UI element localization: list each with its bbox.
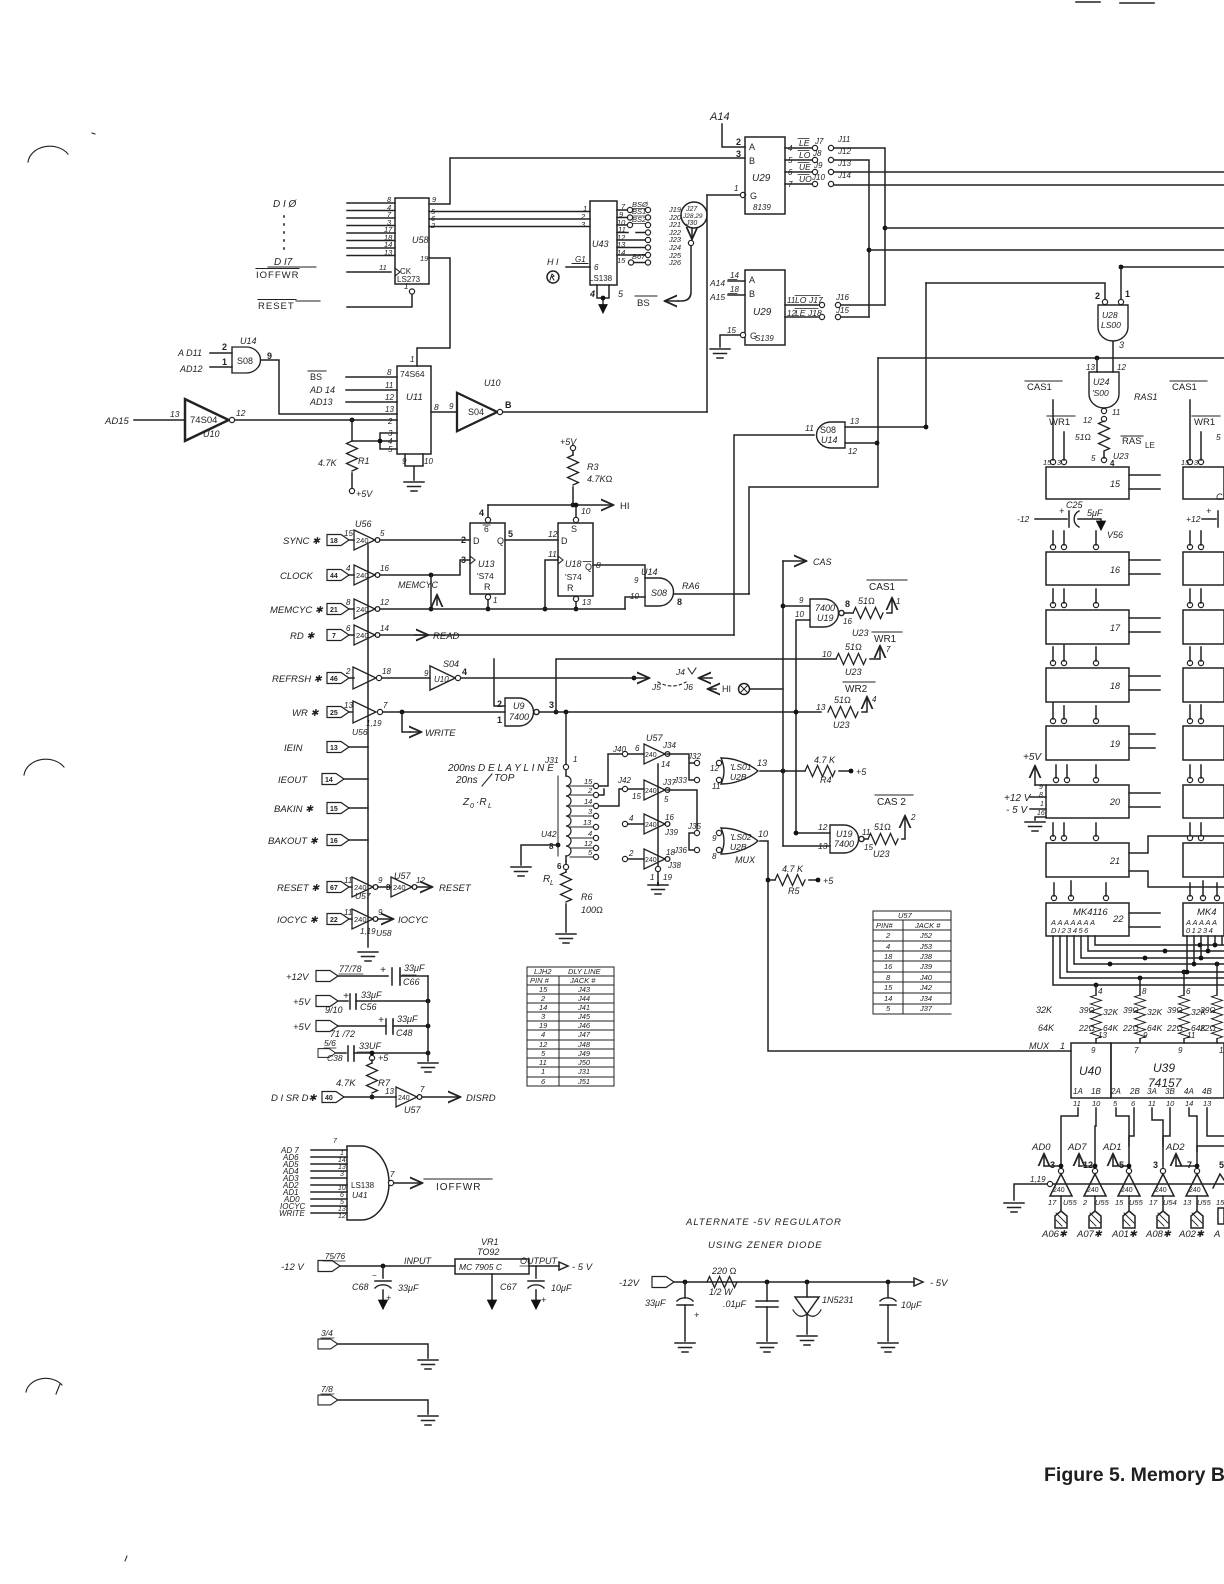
gate U24 LS00: [1096, 358, 1098, 372]
svg-text:1: 1: [573, 755, 577, 764]
svg-text:Figure 5. Memory Boa: Figure 5. Memory Boa: [1044, 1464, 1224, 1486]
svg-text:U10: U10: [484, 378, 501, 388]
power cap common ground: [427, 976, 429, 1061]
svg-text:1: 1: [493, 596, 497, 605]
svg-text:V56: V56: [1107, 530, 1123, 540]
svg-text:S08: S08: [237, 356, 253, 366]
svg-text:6: 6: [1131, 1099, 1136, 1108]
wire S08 pin13 stub: [845, 426, 926, 428]
svg-text:240: 240: [1087, 1187, 1099, 1194]
svg-text:13: 13: [385, 1087, 394, 1096]
svg-text:9: 9: [1091, 1046, 1096, 1055]
svg-text:9: 9: [1178, 1046, 1183, 1055]
svg-text:RD ✱: RD ✱: [290, 631, 315, 642]
wire U28 out to U24 in12: [1112, 342, 1114, 372]
svg-text:51Ω: 51Ω: [834, 695, 851, 705]
svg-text:1A: 1A: [1073, 1087, 1083, 1096]
output tag clipped: [1218, 1208, 1224, 1224]
svg-text:7: 7: [1187, 1160, 1192, 1170]
svg-text:46: 46: [330, 676, 338, 683]
svg-text:3: 3: [736, 149, 741, 159]
svg-text:U57: U57: [646, 733, 664, 743]
svg-text:33μF: 33μF: [645, 1298, 666, 1308]
svg-text:J16: J16: [835, 293, 849, 302]
buffer U10 74S04: [185, 399, 229, 441]
IC U11 74S64: [397, 366, 431, 454]
svg-text:PIN#: PIN#: [876, 921, 894, 930]
svg-text:−: −: [372, 1271, 377, 1280]
svg-text:13: 13: [385, 405, 394, 414]
zener diode 1N5231: [805, 1280, 810, 1285]
svg-text:+: +: [343, 991, 349, 1002]
svg-text:LE: LE: [799, 138, 810, 148]
svg-text:10: 10: [822, 649, 832, 659]
svg-text:4: 4: [462, 667, 467, 677]
CAS bus vertical: [782, 561, 784, 846]
wire y250 line to edge: [867, 248, 872, 253]
address buffer enable line: [1014, 1184, 1224, 1200]
svg-text:IEIN: IEIN: [284, 743, 303, 754]
wire trunk corner down x878: [749, 358, 878, 594]
svg-text:15: 15: [330, 806, 338, 813]
svg-text:J6: J6: [683, 682, 693, 692]
svg-text:9: 9: [432, 195, 437, 204]
svg-text:AD0: AD0: [1031, 1142, 1051, 1153]
svg-text:8: 8: [387, 368, 392, 377]
svg-text:S08: S08: [820, 425, 836, 435]
svg-text:14: 14: [884, 994, 892, 1003]
svg-text:- 5 V: - 5 V: [1006, 805, 1028, 816]
svg-text:R3: R3: [587, 462, 599, 472]
wire A14 into U29a pin A: [722, 124, 745, 147]
svg-text:J32: J32: [687, 752, 701, 761]
page margin hook middle-left: [24, 759, 64, 775]
svg-text:IOCYC ✱: IOCYC ✱: [277, 915, 319, 926]
memory block 15 col2: [1183, 467, 1224, 499]
svg-text:JACK #: JACK #: [569, 976, 596, 985]
svg-text:2: 2: [540, 994, 546, 1003]
svg-text:6: 6: [1186, 987, 1191, 996]
svg-text:RESET ✱: RESET ✱: [277, 883, 320, 894]
resistor R3 4.7K +5V to HI: [570, 445, 575, 450]
svg-text:100Ω: 100Ω: [581, 905, 603, 915]
svg-text:8: 8: [845, 599, 850, 609]
buffer U57 d: [622, 856, 627, 861]
capacitor 33uF zener: [683, 1280, 688, 1285]
svg-text:LO: LO: [795, 295, 807, 305]
decoder U29a LS139: [745, 137, 785, 214]
svg-text:2: 2: [1082, 1198, 1088, 1207]
svg-text:5: 5: [1216, 432, 1221, 442]
output tag AD1*: [1123, 1211, 1135, 1228]
svg-text:20: 20: [1109, 797, 1120, 807]
svg-text:C67: C67: [500, 1282, 518, 1292]
IC U43 LS138: [590, 201, 617, 285]
svg-text:J48: J48: [577, 1040, 591, 1049]
svg-text:RAS: RAS: [1122, 436, 1142, 447]
svg-text:J51: J51: [577, 1077, 590, 1086]
svg-text:1N5231: 1N5231: [822, 1295, 854, 1305]
svg-text:U58: U58: [376, 928, 392, 938]
svg-text:32K: 32K: [1147, 1007, 1162, 1017]
svg-text:15: 15: [884, 983, 893, 992]
svg-text:14: 14: [325, 777, 333, 784]
svg-text:J4: J4: [675, 667, 685, 677]
svg-text:+5: +5: [823, 876, 834, 886]
svg-text:J53: J53: [919, 942, 933, 951]
svg-text:+5: +5: [856, 767, 867, 777]
svg-text:7400: 7400: [834, 839, 854, 849]
svg-text:2: 2: [345, 667, 351, 676]
svg-text:74S64: 74S64: [400, 369, 425, 379]
svg-text:+12V: +12V: [286, 972, 310, 983]
svg-text:A14: A14: [709, 278, 725, 288]
svg-text:A01✱: A01✱: [1111, 1229, 1138, 1240]
wire J37 to J35 jacks: [667, 790, 697, 850]
DI bus ellipsis dots: [283, 216, 285, 249]
svg-text:U11: U11: [406, 392, 423, 403]
svg-text:INPUT: INPUT: [404, 1256, 433, 1266]
svg-text:16: 16: [1110, 565, 1120, 575]
svg-text:S: S: [571, 524, 577, 534]
svg-text:J39: J39: [919, 962, 933, 971]
svg-text:7: 7: [332, 633, 336, 640]
svg-text:5/6: 5/6: [324, 1038, 336, 1048]
address buffer T5: [1194, 1168, 1199, 1173]
svg-text:UO: UO: [799, 174, 812, 184]
resistor 51ohm CAS2 U23: [864, 838, 868, 840]
wire taps to U57 buffers: [599, 754, 622, 786]
svg-text:17: 17: [1110, 623, 1121, 633]
svg-text:1: 1: [734, 184, 738, 193]
svg-text:12: 12: [338, 1213, 346, 1220]
wire wr line to gate: [383, 711, 505, 713]
svg-text:5: 5: [1119, 1160, 1124, 1170]
svg-text:·R: ·R: [476, 797, 487, 808]
wire reset arrow: [417, 886, 431, 888]
svg-text:J35: J35: [687, 822, 701, 831]
svg-text:JACK #: JACK #: [914, 921, 941, 930]
delay line taps: [583, 777, 593, 857]
net labels LE LO UE UO: [799, 138, 812, 184]
svg-text:4: 4: [479, 508, 484, 518]
svg-text:14: 14: [380, 624, 389, 633]
svg-text:12: 12: [584, 839, 593, 848]
svg-text:+: +: [694, 1310, 699, 1320]
svg-text:J39: J39: [664, 828, 678, 837]
wire U18 CK from memcyc: [545, 560, 558, 609]
wire y283 line into U28: [926, 283, 1105, 300]
svg-text:0: 0: [470, 803, 474, 810]
svg-text:240: 240: [645, 857, 657, 864]
svg-text:U28: U28: [1102, 310, 1118, 320]
svg-text:A15: A15: [709, 292, 725, 302]
svg-text:U23: U23: [873, 849, 890, 859]
svg-text:13: 13: [1086, 363, 1095, 372]
address buffer T2: [1092, 1168, 1097, 1173]
svg-text:D: D: [473, 536, 480, 546]
svg-text:11: 11: [1073, 1099, 1081, 1108]
wire IOFFWR to U58 CK: [347, 271, 391, 273]
svg-text:R: R: [484, 582, 491, 592]
decoder U41 LS138 ioffwr: [279, 1146, 306, 1218]
svg-text:U57: U57: [355, 891, 371, 901]
svg-text:16: 16: [380, 564, 389, 573]
wire DI0-DI7 input lines to U58: [347, 203, 395, 256]
svg-text:D I7: D I7: [274, 257, 293, 268]
svg-text:6: 6: [346, 624, 351, 633]
svg-text:J33: J33: [673, 776, 687, 785]
svg-text:51Ω: 51Ω: [845, 642, 862, 652]
svg-text:J41: J41: [577, 1003, 590, 1012]
svg-text:C: C: [1216, 492, 1223, 502]
svg-text:R5: R5: [788, 886, 800, 896]
svg-text:3: 3: [340, 1171, 344, 1178]
svg-text:14: 14: [338, 1157, 346, 1164]
wire MUX out down to U40: [760, 841, 1071, 1051]
svg-text:1: 1: [340, 1150, 344, 1157]
svg-text:MK4: MK4: [1197, 907, 1217, 918]
svg-text:G1: G1: [575, 255, 586, 264]
wire U58 pin19 to U11 pin1: [417, 258, 450, 366]
svg-text:2: 2: [587, 786, 593, 795]
svg-text:U23: U23: [833, 720, 850, 730]
svg-text:240: 240: [1121, 1187, 1133, 1194]
wire S08 pin12 stub: [845, 442, 877, 444]
svg-text:17: 17: [1048, 1198, 1057, 1207]
svg-text:4.7KΩ: 4.7KΩ: [587, 474, 613, 484]
svg-text:4: 4: [1098, 987, 1103, 996]
svg-text:7400: 7400: [815, 603, 835, 613]
svg-text:BAKIN ✱: BAKIN ✱: [274, 804, 314, 815]
svg-text:5: 5: [1113, 1099, 1118, 1108]
svg-text:U42: U42: [541, 829, 557, 839]
svg-text:9: 9: [424, 669, 429, 678]
wire U29a G pin stub: [707, 194, 741, 196]
svg-text:2: 2: [628, 849, 634, 858]
svg-text:75/76: 75/76: [325, 1252, 346, 1261]
svg-text:11: 11: [1187, 1031, 1195, 1040]
capacitor 10uF zener: [886, 1280, 891, 1285]
wire write arrow branch: [402, 712, 410, 732]
svg-text:32K: 32K: [1103, 1007, 1118, 1017]
svg-text:'S74: 'S74: [565, 572, 582, 582]
wire sync to U13 D: [380, 539, 470, 541]
svg-text:11: 11: [379, 263, 387, 272]
memory block 19 col2: [1183, 726, 1224, 760]
svg-text:9: 9: [378, 908, 383, 917]
circled-R mark: [547, 271, 559, 283]
svg-text:7: 7: [886, 645, 891, 654]
svg-text:A: A: [749, 142, 755, 152]
svg-text:4: 4: [589, 289, 595, 299]
page margin hook top-left: [28, 146, 68, 162]
svg-text:15: 15: [1115, 1198, 1124, 1207]
svg-text:A: A: [749, 275, 755, 285]
svg-text:MEMCYC ✱: MEMCYC ✱: [270, 605, 324, 616]
svg-text:2: 2: [387, 417, 393, 426]
wire vertical net x707 (B select): [706, 195, 708, 412]
memory block 20 col2: [1183, 785, 1224, 818]
svg-text:+5V: +5V: [293, 997, 312, 1008]
svg-text:77/78: 77/78: [339, 964, 362, 974]
svg-text:J26: J26: [668, 258, 682, 267]
svg-text:8: 8: [346, 598, 351, 607]
svg-text:TOP: TOP: [494, 773, 515, 784]
svg-text:13: 13: [1098, 1031, 1107, 1040]
svg-text:A D11: A D11: [177, 348, 202, 358]
wire LE net to right via x885: [834, 148, 885, 305]
svg-text:+5V: +5V: [560, 437, 577, 447]
wire RA6 out to x749 vertical: [674, 593, 749, 596]
svg-text:U56: U56: [355, 519, 372, 529]
staircase junction dots: [1094, 983, 1099, 988]
svg-text:13: 13: [582, 598, 591, 607]
svg-text:16: 16: [665, 813, 674, 822]
svg-text:8: 8: [1039, 792, 1043, 799]
svg-text:39Ω: 39Ω: [1079, 1005, 1095, 1015]
svg-text:A06✱: A06✱: [1041, 1229, 1068, 1240]
svg-text:BAKOUT ✱: BAKOUT ✱: [268, 836, 319, 847]
svg-text:10: 10: [758, 829, 768, 839]
svg-text:11: 11: [712, 782, 720, 791]
node +5 pickup R7: [370, 1051, 375, 1056]
svg-text:U13: U13: [478, 559, 495, 569]
svg-text:LS138: LS138: [351, 1181, 375, 1190]
wire U28 pin1 from y267: [1120, 267, 1122, 300]
svg-text:4: 4: [872, 695, 877, 704]
svg-text:C25: C25: [1066, 500, 1084, 510]
buffer U56 rd: [354, 625, 380, 645]
svg-text:6: 6: [541, 1077, 546, 1086]
wire LO net to right via x869: [834, 160, 869, 317]
svg-text:USING ZENER DIODE: USING ZENER DIODE: [708, 1240, 823, 1251]
svg-text:8: 8: [1142, 987, 1147, 996]
svg-text:240: 240: [1189, 1187, 1201, 1194]
svg-text:13: 13: [583, 818, 592, 827]
svg-text:Q: Q: [497, 536, 504, 546]
svg-text:1: 1: [896, 597, 900, 606]
svg-text:RESET: RESET: [258, 301, 295, 312]
buffer U56 clock: [354, 565, 380, 585]
svg-text:RA6: RA6: [682, 581, 700, 591]
svg-text:MC 7905 C: MC 7905 C: [459, 1262, 503, 1272]
svg-text:21: 21: [330, 607, 338, 614]
svg-text:J37: J37: [919, 1004, 933, 1013]
svg-text:R6: R6: [581, 892, 593, 902]
svg-text:REFRSH ✱: REFRSH ✱: [272, 674, 323, 685]
svg-text:10μF: 10μF: [551, 1283, 572, 1293]
svg-text:+: +: [1206, 506, 1211, 516]
svg-text:3: 3: [1050, 1160, 1055, 1170]
svg-text:LS138: LS138: [589, 274, 613, 283]
svg-text:U55: U55: [1063, 1198, 1078, 1207]
svg-text:15: 15: [344, 529, 353, 538]
svg-text:9: 9: [449, 402, 454, 411]
U43 right jack rows BS0-B67 J19-J26: [617, 200, 682, 267]
enable bus x368 vertical: [367, 545, 369, 947]
svg-text:19: 19: [539, 1021, 548, 1030]
mux U39 74157: [1111, 1043, 1224, 1098]
svg-text:1B: 1B: [1091, 1087, 1101, 1096]
svg-text:- 5 V: - 5 V: [572, 1262, 594, 1273]
capacitor .01uF: [765, 1280, 770, 1285]
svg-text:S04: S04: [443, 659, 459, 669]
svg-text:1,19: 1,19: [1030, 1175, 1046, 1184]
svg-text:5: 5: [1219, 1160, 1224, 1170]
svg-text:R1: R1: [358, 456, 370, 466]
trunk wire y358 to edge: [878, 357, 1224, 359]
svg-text:01234: 01234: [1186, 926, 1214, 935]
wire LS01 out to CAS bus: [760, 770, 783, 772]
svg-text:22Ω: 22Ω: [1078, 1023, 1095, 1033]
svg-text:4A: 4A: [1184, 1087, 1194, 1096]
svg-text:8: 8: [434, 402, 439, 412]
wire UE long line to edge: [834, 171, 1224, 173]
VR1 ground pin arrow: [491, 1274, 493, 1308]
wire AD15 buffered to U11 pin2: [235, 419, 397, 421]
svg-text:11: 11: [344, 908, 352, 917]
svg-text:A02✱: A02✱: [1178, 1229, 1205, 1240]
svg-text:5: 5: [508, 529, 513, 539]
wire J34 to J32 jacks: [667, 754, 694, 780]
wire refresh line right: [461, 677, 634, 679]
memory block 18 col2: [1183, 668, 1224, 702]
wire UO long line to edge: [834, 184, 1224, 186]
svg-text:J47: J47: [577, 1030, 591, 1039]
svg-text:U19: U19: [836, 829, 853, 839]
wire U13 R down: [487, 600, 489, 609]
svg-text:3: 3: [549, 700, 554, 710]
wire B line to x707: [503, 411, 707, 413]
svg-text:+: +: [386, 1293, 391, 1303]
svg-text:AD13: AD13: [309, 397, 333, 407]
svg-text:PIN #: PIN #: [530, 976, 550, 985]
svg-text:D: D: [561, 536, 568, 546]
svg-text:40: 40: [325, 1095, 333, 1102]
svg-text:5: 5: [886, 1004, 891, 1013]
resistor R5 47K to +5: [766, 878, 771, 883]
svg-text:U54: U54: [1163, 1198, 1177, 1207]
resistor column d clipped: [1216, 964, 1218, 995]
svg-text:U14: U14: [641, 567, 658, 577]
svg-text:+5V: +5V: [1023, 752, 1042, 763]
svg-text:TO92: TO92: [477, 1247, 499, 1257]
svg-text:MUX: MUX: [1029, 1041, 1050, 1051]
svg-text:6: 6: [557, 862, 562, 871]
svg-text:AD 14: AD 14: [309, 385, 335, 395]
svg-text:READ: READ: [433, 631, 460, 642]
svg-text:64K: 64K: [1038, 1023, 1055, 1033]
svg-text:HI: HI: [620, 501, 630, 512]
svg-text:1: 1: [541, 1067, 545, 1076]
svg-text:13: 13: [850, 417, 859, 426]
gate U19 7400 CAS2: [783, 833, 830, 846]
svg-text:J30: J30: [685, 220, 697, 227]
svg-text:7400: 7400: [509, 712, 529, 722]
svg-text:+5V: +5V: [293, 1022, 312, 1033]
mux bottom pin numbers: [1073, 1099, 1212, 1108]
svg-text:WR ✱: WR ✱: [292, 708, 319, 719]
svg-text:CAS1: CAS1: [1027, 382, 1052, 393]
svg-text:12: 12: [416, 876, 425, 885]
wire RESET to U58 pin1: [347, 294, 412, 307]
svg-text:13: 13: [1183, 1198, 1192, 1207]
svg-text:240: 240: [356, 605, 369, 614]
svg-text:6: 6: [635, 744, 640, 753]
buffer U58 iocyc: [352, 909, 378, 929]
svg-text:LO: LO: [799, 150, 811, 160]
